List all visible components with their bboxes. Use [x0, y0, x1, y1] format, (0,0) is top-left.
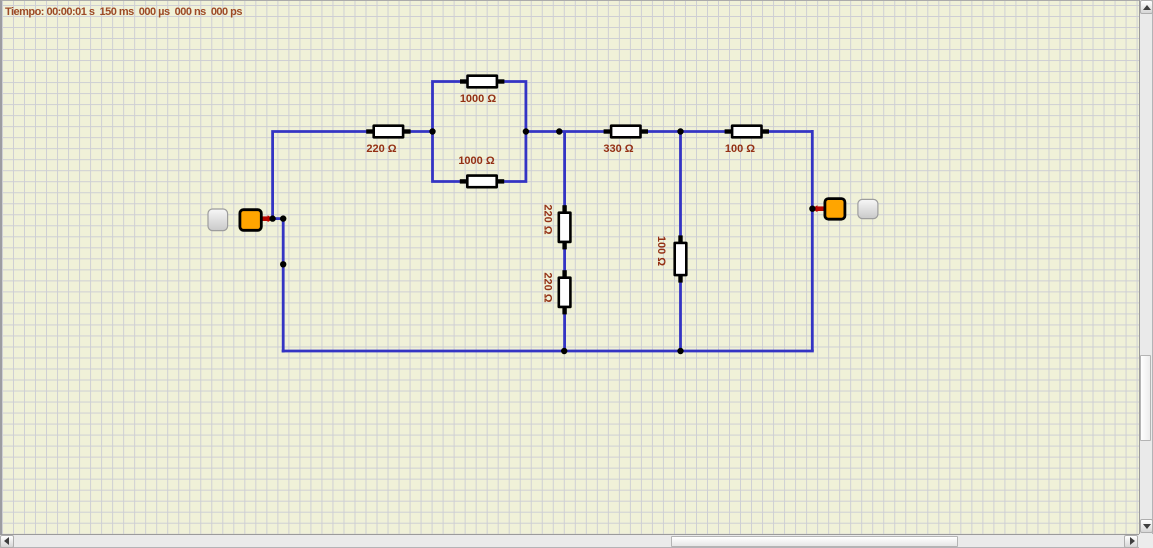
label R3 1000 ohm — [458, 155, 495, 167]
node N3 — [556, 128, 562, 134]
node E (bottom of R5 chain) — [561, 348, 567, 354]
simulation time display — [5, 6, 242, 18]
label R1 220 ohm — [366, 143, 396, 155]
battery component left (orange box) — [240, 210, 261, 231]
wire left lower vertical from node B to bottom rail — [282, 219, 285, 353]
resistor R7 330 ohm — [604, 124, 648, 138]
scrollbar left button — [0, 535, 14, 548]
wire short link node A to node B — [273, 217, 284, 220]
label R6 100 ohm (rotated) — [655, 236, 667, 266]
label R4 220 ohm (rotated) — [542, 204, 554, 234]
node B — [280, 215, 286, 221]
wire right vertical from top-right corner to bottom-right corner — [811, 130, 814, 351]
svg-text:220 Ω: 220 Ω — [542, 204, 554, 234]
battery terminal red lead (right source) — [811, 205, 824, 212]
scrollbar down button — [1140, 519, 1153, 533]
scrollbar up button — [1140, 0, 1153, 14]
scrollbar right button — [1124, 535, 1138, 548]
resistor R8 100 ohm (top right) — [725, 124, 769, 138]
scrollbar: horizontal track — [0, 534, 1139, 548]
label R2 1000 ohm — [460, 93, 497, 105]
resistor R4 220 ohm (vertical, upper of series pair) — [558, 205, 572, 249]
scrollbar horizontal thumb — [671, 536, 958, 547]
node N4 — [677, 128, 683, 134]
scrollbar vertical thumb — [1140, 355, 1151, 441]
resistor R1 220 ohm — [366, 124, 410, 138]
wire chain of R6 from node N4 to bottom rail — [679, 132, 682, 352]
battery terminal red lead (left source) — [262, 215, 274, 222]
node A (left battery junction) — [269, 215, 275, 221]
svg-text:220 Ω: 220 Ω — [542, 272, 554, 302]
resistor R5 220 ohm (vertical, lower of series pair) — [558, 270, 572, 314]
resistor R6 100 ohm (vertical) — [673, 235, 687, 282]
label R5 220 ohm (rotated) — [542, 272, 554, 302]
svg-text:1000 Ω: 1000 Ω — [458, 155, 495, 167]
resistor R2 1000 ohm (top of parallel pair) — [460, 74, 504, 88]
resistor R3 1000 ohm (bottom of parallel pair) — [460, 174, 504, 188]
wire chain of R4/R5 from rail to bottom rail — [563, 132, 566, 352]
svg-text:100 Ω: 100 Ω — [725, 143, 755, 155]
node D (right battery junction) — [809, 206, 815, 212]
node N2 — [523, 128, 529, 134]
svg-text:330 Ω: 330 Ω — [603, 143, 633, 155]
button right (gray) — [858, 199, 878, 218]
node F (bottom of R6 chain) — [677, 348, 683, 354]
scrollbar: vertical track — [1139, 0, 1153, 534]
svg-text:1000 Ω: 1000 Ω — [460, 93, 497, 105]
svg-text:220 Ω: 220 Ω — [366, 143, 396, 155]
svg-text:100 Ω: 100 Ω — [655, 236, 667, 266]
node N1 — [429, 128, 435, 134]
scrollbar corner — [1139, 534, 1153, 548]
battery component right (orange box) — [825, 199, 845, 220]
wire left top: vertical from node A down to battery node, and horizontal to node N1 — [273, 132, 434, 221]
button left (gray) — [208, 209, 228, 231]
wire main rail from node N2 to top-right corner — [526, 130, 812, 133]
label R7 330 ohm — [603, 143, 633, 155]
wire parallel loop of R2/R3 between node N1 and node N2 — [433, 82, 526, 182]
node C (mid left wire) — [280, 261, 286, 267]
wire bottom rail — [282, 350, 814, 353]
label R8 100 ohm — [725, 143, 755, 155]
